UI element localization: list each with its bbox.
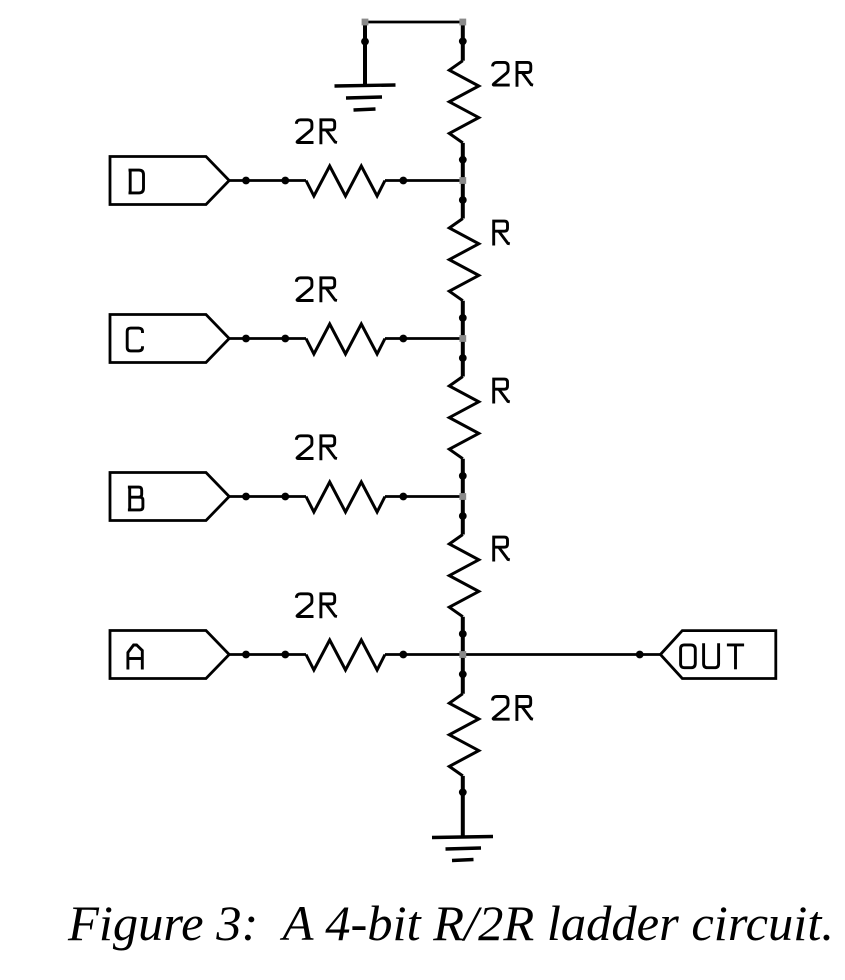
wire vertical drop to top ground: [363, 22, 367, 86]
value label 2R (input C resistor): [296, 278, 313, 301]
terminal label B: [128, 487, 143, 510]
resistor 2R (bottom termination): [449, 694, 479, 776]
svg-text:Figure 3: A 4-bit R/2R ladder: Figure 3: A 4-bit R/2R ladder circuit.: [67, 895, 834, 951]
resistor 2R (top of ladder): [449, 61, 479, 143]
junction dot before OUT: [636, 651, 644, 659]
wire row A from resistor through node A to OUT: [385, 653, 660, 656]
junction dot above node A: [459, 630, 467, 638]
value label 2R (input B resistor): [296, 436, 313, 459]
terminal OUT outline: [660, 631, 775, 679]
node A: [459, 651, 466, 658]
value label R (C-B): [494, 379, 510, 403]
junction dot below node B: [459, 512, 467, 520]
terminal D outline: [110, 157, 229, 205]
terminal label A: [128, 645, 142, 670]
wire bus above node A: [461, 617, 465, 694]
value label R (B-A): [494, 537, 510, 561]
wire row B from terminal to resistor: [229, 495, 306, 498]
terminal label OUT: [681, 645, 696, 668]
wire row D from resistor to node D: [385, 179, 463, 182]
wire row D from terminal to resistor: [229, 179, 306, 182]
junction dot below node C: [459, 354, 467, 362]
terminal C outline: [110, 315, 229, 363]
wire top of ladder bus: [461, 22, 465, 61]
resistor 2R (input C): [306, 324, 385, 354]
wire bus above node D: [461, 143, 465, 219]
wire top horizontal from ground branch to 2R top: [365, 21, 463, 24]
resistor 2R (input D): [306, 166, 385, 196]
junction dot above node B: [459, 472, 467, 480]
node C: [459, 335, 466, 342]
terminal B outline: [110, 473, 229, 521]
terminal A outline: [110, 631, 229, 679]
node square top-right corner: [459, 19, 466, 26]
value label 2R (top resistor): [493, 62, 510, 85]
node D: [459, 177, 466, 184]
junction dots row D: [242, 177, 250, 185]
value label 2R (input A resistor): [296, 594, 313, 617]
resistor R (between node D and node C): [449, 219, 479, 301]
ground (top left): [335, 85, 396, 86]
wire row C from terminal to resistor: [229, 337, 306, 340]
junction dot on ground branch: [361, 38, 369, 46]
terminal label D: [129, 170, 144, 193]
ground (bottom): [432, 837, 493, 838]
junction dots row A: [242, 651, 250, 659]
wire row A from terminal to resistor: [229, 653, 306, 656]
junction dot below node D: [459, 196, 467, 204]
wire bus to bottom ground: [461, 776, 465, 836]
junction dots row B: [242, 493, 250, 501]
wire bus above node B: [461, 459, 465, 535]
value label R (D-C): [494, 221, 510, 245]
wire row B from resistor to node B: [385, 495, 463, 498]
junction dot above bottom ground: [459, 788, 467, 796]
wire bus above node C: [461, 301, 465, 377]
node B: [459, 493, 466, 500]
junction dot above node C: [459, 314, 467, 322]
node square top-left corner: [362, 19, 369, 26]
value label 2R (bottom resistor): [492, 697, 509, 720]
junction dot top of bus: [459, 37, 467, 45]
terminal label C: [127, 328, 142, 351]
junction dot below node A: [459, 670, 467, 678]
resistor 2R (input B): [306, 482, 385, 512]
resistor 2R (input A): [306, 640, 385, 670]
value label 2R (input D resistor): [296, 120, 313, 143]
resistor R (between node B and node A): [449, 535, 479, 617]
wire row C from resistor to node C: [385, 337, 463, 340]
junction dot above node D: [459, 156, 467, 164]
junction dots row C: [242, 335, 250, 343]
resistor R (between node C and node B): [449, 377, 479, 459]
